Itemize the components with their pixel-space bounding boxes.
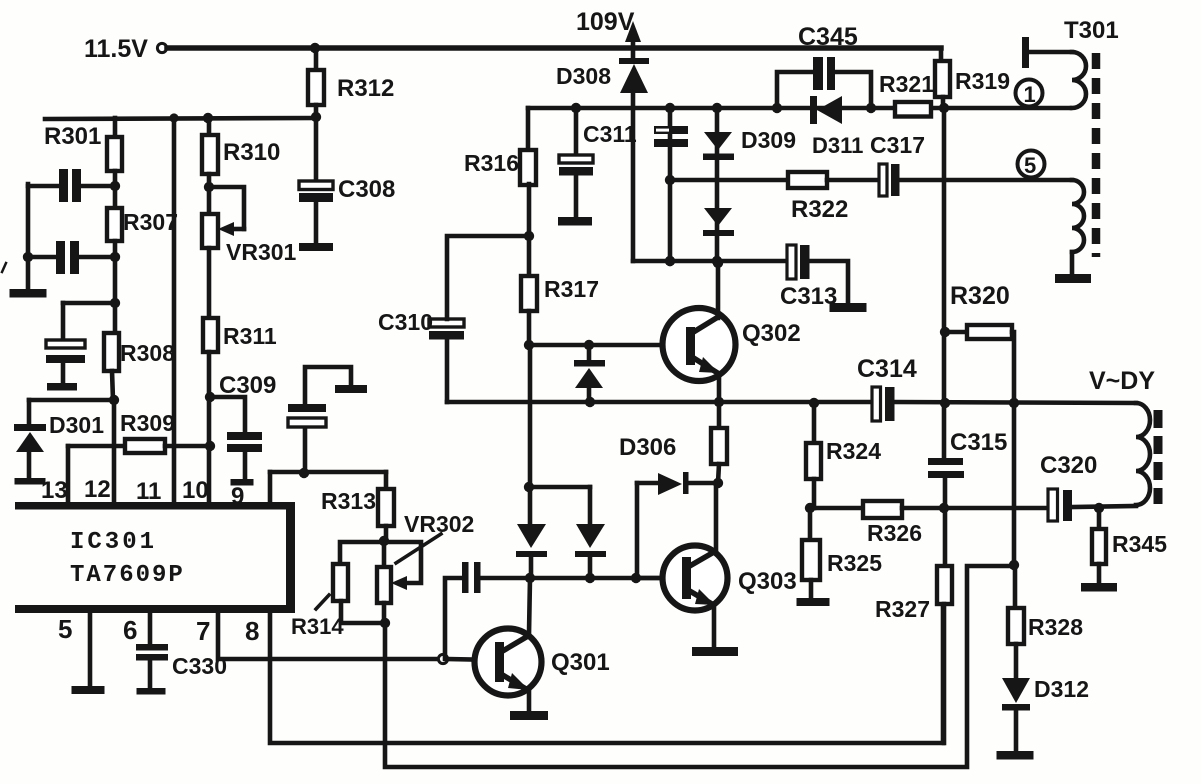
- svg-text:C309: C309: [219, 372, 276, 399]
- svg-text:T301: T301: [1064, 17, 1119, 44]
- svg-text:R345: R345: [1112, 531, 1167, 557]
- svg-text:R316: R316: [464, 150, 519, 176]
- svg-text:VR301: VR301: [226, 239, 297, 265]
- svg-text:R308: R308: [120, 340, 175, 366]
- svg-text:C311: C311: [583, 121, 637, 147]
- svg-text:9: 9: [231, 483, 244, 510]
- svg-text:13: 13: [41, 477, 68, 504]
- svg-text:C308: C308: [338, 176, 395, 203]
- svg-text:C345: C345: [798, 23, 858, 51]
- svg-text:C314: C314: [857, 355, 917, 383]
- svg-text:D308: D308: [556, 63, 611, 89]
- svg-text:10: 10: [182, 477, 209, 504]
- svg-text:8: 8: [245, 616, 259, 646]
- svg-text:C317: C317: [870, 132, 925, 158]
- svg-text:6: 6: [123, 615, 137, 645]
- svg-text:R314: R314: [291, 614, 344, 639]
- svg-text:R327: R327: [875, 596, 930, 622]
- svg-text:R322: R322: [791, 196, 848, 223]
- svg-text:R309: R309: [120, 410, 175, 436]
- svg-text:R319: R319: [955, 68, 1010, 94]
- svg-text:C330: C330: [172, 653, 227, 679]
- svg-text:R326: R326: [867, 520, 922, 546]
- svg-text:Q301: Q301: [551, 649, 610, 676]
- svg-text:1: 1: [1024, 82, 1036, 107]
- svg-text:R317: R317: [544, 276, 599, 302]
- svg-text:C313: C313: [780, 283, 837, 310]
- svg-text:C315: C315: [950, 429, 1007, 456]
- svg-text:7: 7: [196, 616, 210, 646]
- svg-text:IC301: IC301: [70, 529, 157, 556]
- svg-text:D311: D311: [812, 133, 863, 158]
- svg-text:D312: D312: [1034, 676, 1089, 702]
- svg-text:R307: R307: [123, 209, 178, 235]
- svg-text:D306: D306: [619, 434, 676, 461]
- svg-text:Q302: Q302: [742, 320, 801, 347]
- svg-text:TA7609P: TA7609P: [70, 562, 185, 589]
- svg-text:Q303: Q303: [738, 568, 797, 595]
- svg-text:R320: R320: [950, 282, 1010, 310]
- svg-text:D301: D301: [49, 412, 104, 438]
- svg-text:R328: R328: [1028, 614, 1083, 640]
- svg-text:R321: R321: [879, 71, 934, 97]
- svg-text:R313: R313: [321, 488, 376, 514]
- svg-text:11: 11: [136, 478, 161, 505]
- svg-text:R325: R325: [827, 550, 882, 576]
- svg-text:R301: R301: [44, 123, 101, 150]
- svg-text:5: 5: [58, 614, 72, 644]
- svg-text:R311: R311: [223, 323, 277, 349]
- svg-text:VR302: VR302: [404, 511, 474, 537]
- svg-text:V~DY: V~DY: [1089, 367, 1155, 395]
- svg-text:11.5V: 11.5V: [84, 35, 148, 63]
- svg-text:5: 5: [1024, 153, 1036, 178]
- svg-text:12: 12: [84, 476, 111, 503]
- svg-text:R310: R310: [223, 139, 280, 166]
- svg-text:R312: R312: [337, 75, 394, 102]
- svg-text:C320: C320: [1040, 452, 1097, 479]
- svg-text:D309: D309: [741, 127, 796, 153]
- svg-text:109V: 109V: [576, 8, 635, 36]
- svg-text:C310: C310: [378, 309, 433, 335]
- svg-text:R324: R324: [826, 438, 881, 464]
